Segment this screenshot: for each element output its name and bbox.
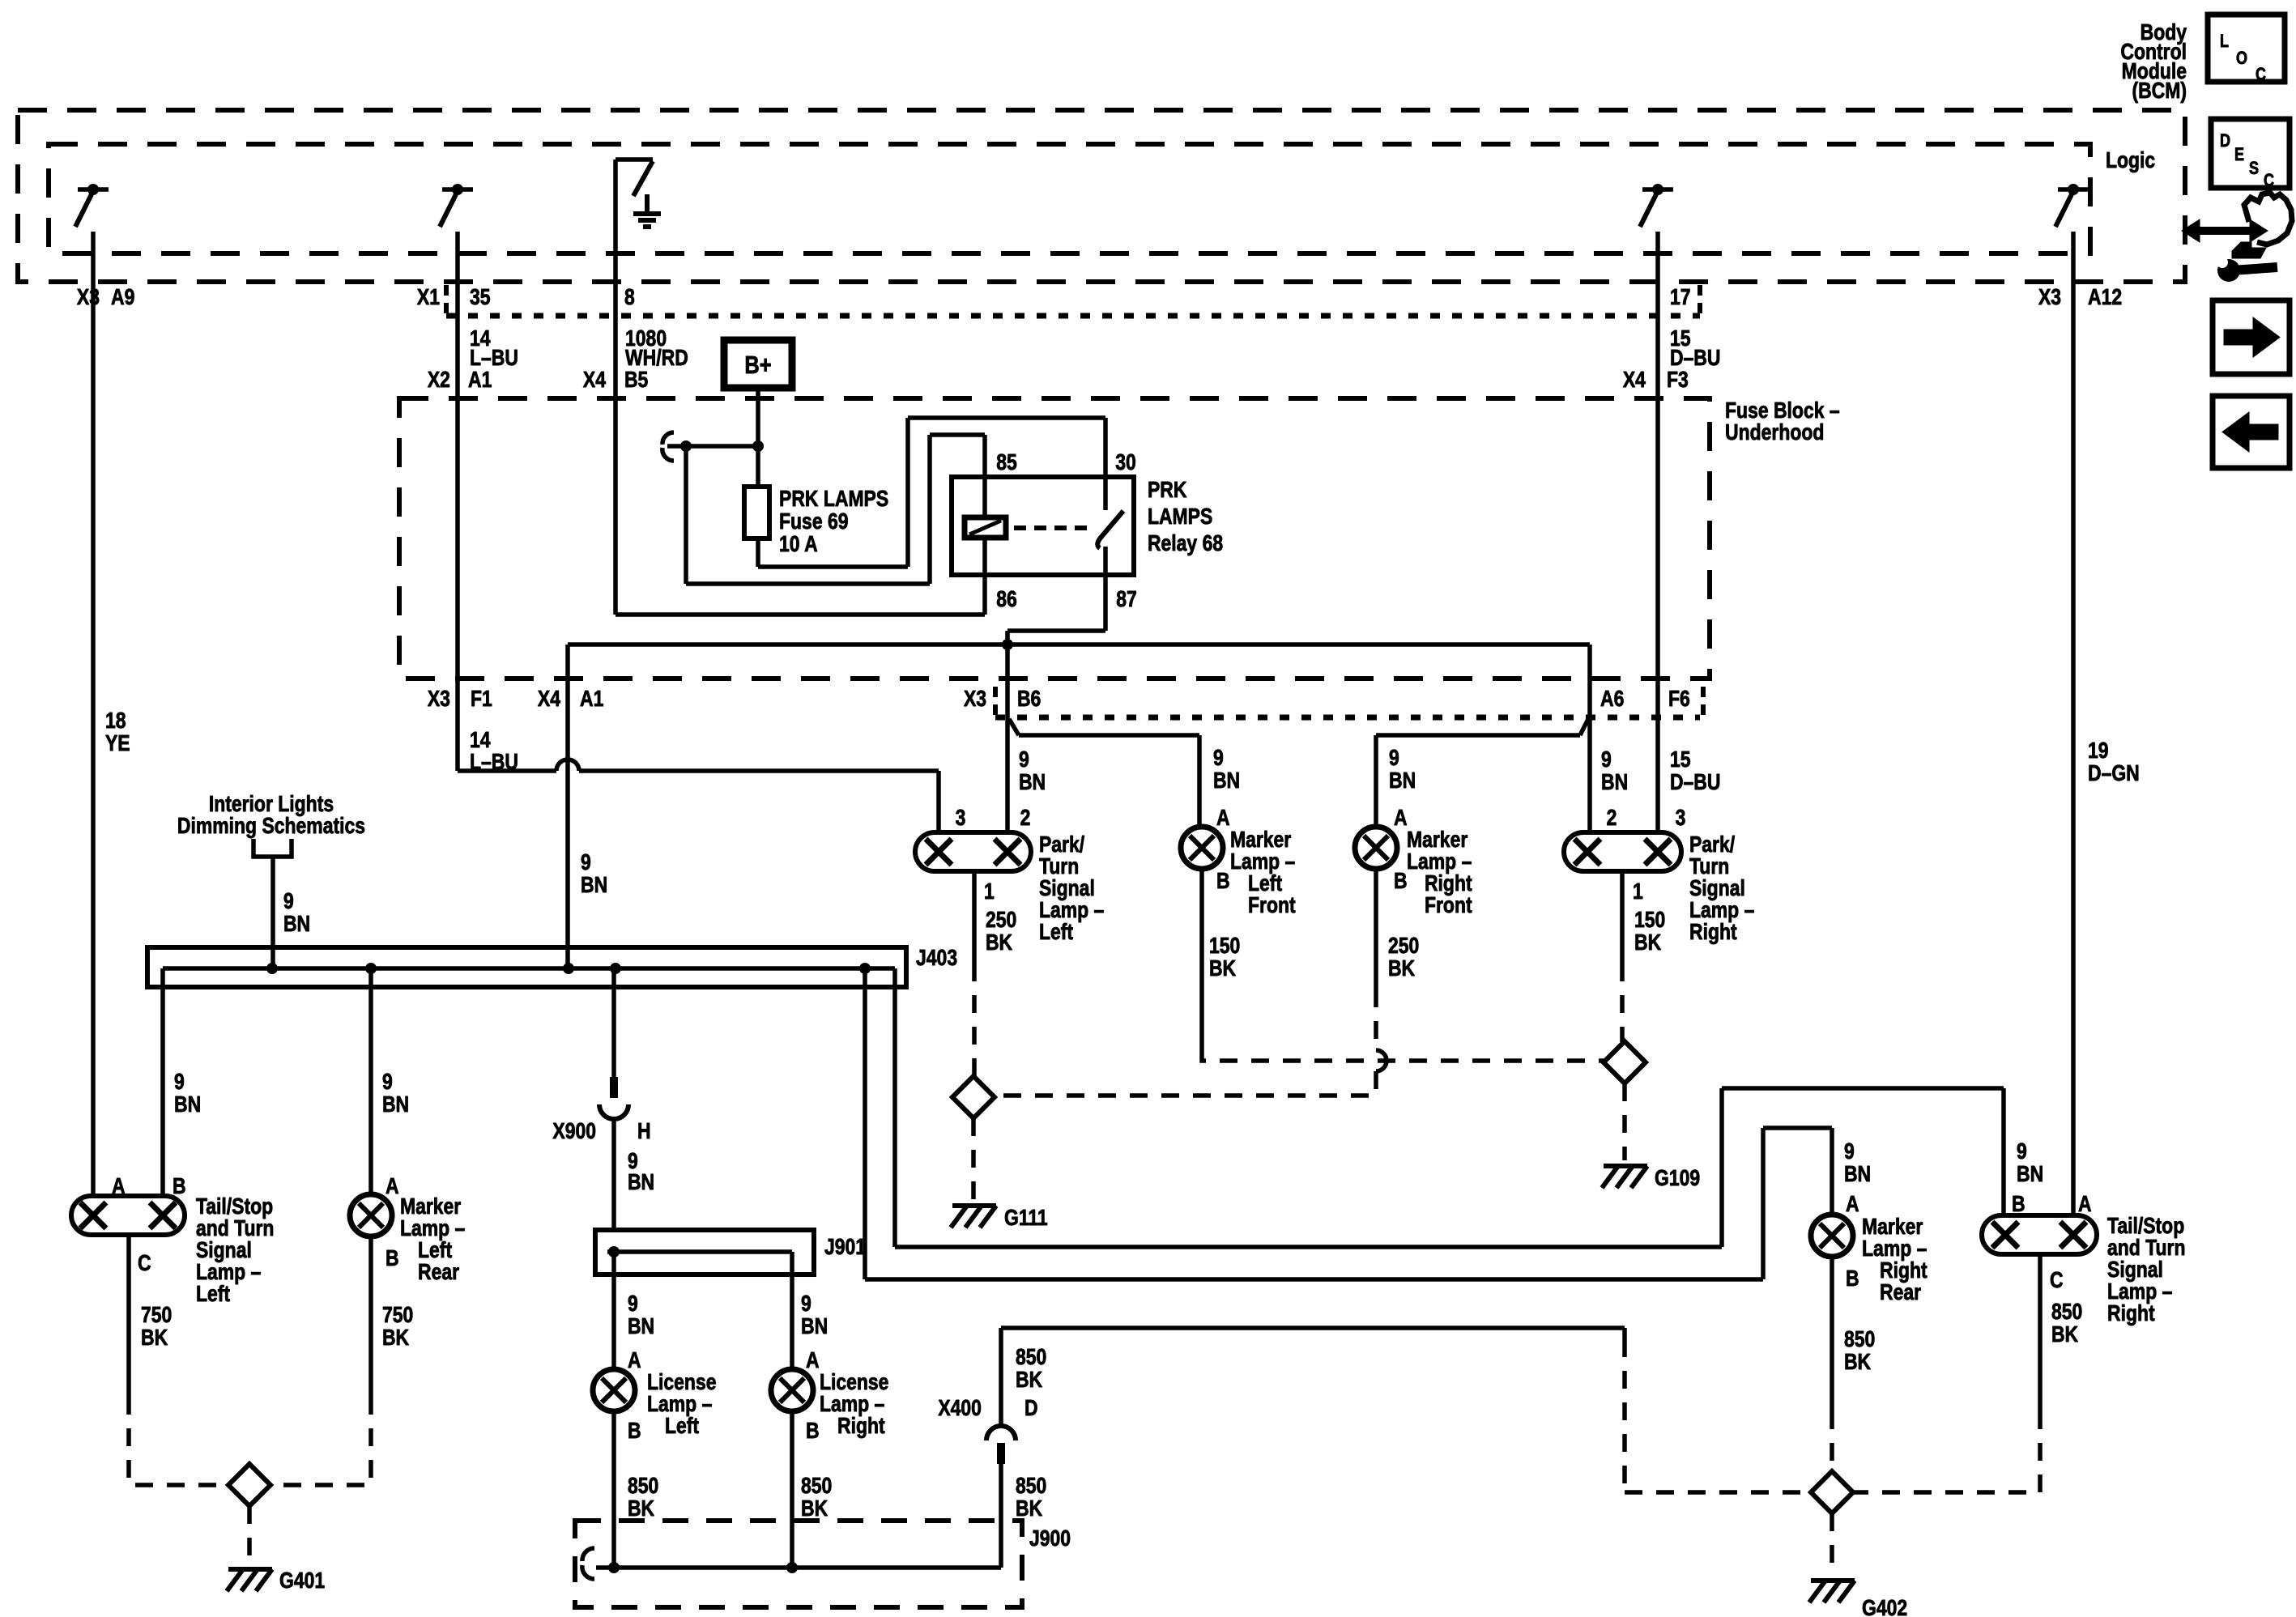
wire 9 BN X900 to J901 [611, 1119, 616, 1230]
svg-text:BK: BK [1209, 956, 1237, 981]
wire X3-B6 drop to park/turn left pin 2 [1005, 645, 1010, 832]
svg-text:9: 9 [801, 1291, 811, 1317]
branch to marker lamp right front [1580, 719, 1588, 735]
svg-text:Front: Front [1425, 893, 1472, 918]
svg-text:250: 250 [986, 908, 1016, 933]
svg-text:35: 35 [470, 285, 491, 310]
BCM output driver switch X3-A12 [2058, 187, 2089, 192]
svg-text:C: C [2264, 171, 2274, 190]
svg-text:BK: BK [141, 1326, 168, 1351]
wire 14 L-BU horizontal to park/turn left pin 3 with hop [458, 768, 556, 773]
svg-text:O: O [2236, 49, 2247, 68]
svg-text:BN: BN [2017, 1162, 2043, 1187]
svg-text:850: 850 [1844, 1327, 1875, 1352]
park/turn signal lamp right [1564, 832, 1681, 871]
svg-text:B: B [1394, 869, 1408, 894]
svg-text:X3: X3 [964, 687, 986, 712]
wire 150 BK marker left front [1199, 869, 1204, 1047]
svg-text:E: E [2234, 145, 2244, 164]
svg-text:PRK: PRK [1148, 478, 1187, 503]
fused feed to relay pin 30 [756, 538, 760, 567]
wire 15 D-BU from BCM pin 17 to park/turn right pin 3 [1655, 232, 1660, 832]
svg-text:17: 17 [1670, 285, 1691, 310]
svg-text:9: 9 [581, 850, 591, 875]
svg-text:A12: A12 [2088, 285, 2122, 310]
svg-text:B: B [1846, 1266, 1859, 1291]
svg-text:3: 3 [956, 806, 966, 831]
svg-text:850: 850 [1016, 1474, 1046, 1499]
svg-text:BN: BN [1844, 1162, 1871, 1187]
BCM ground output pin 8 symbol [616, 157, 653, 162]
wire from B+ to fuse 69 [756, 388, 760, 487]
wire 750 BK marker left rear [368, 1236, 373, 1397]
svg-text:F1: F1 [471, 687, 492, 712]
svg-text:BK: BK [1388, 956, 1416, 981]
BCM inner dashed box (Logic) [49, 144, 2090, 253]
svg-text:30: 30 [1115, 450, 1136, 475]
svg-text:H: H [637, 1119, 651, 1144]
svg-text:750: 750 [141, 1303, 172, 1328]
svg-text:3: 3 [1676, 806, 1686, 831]
marker lamp left front [1181, 827, 1223, 869]
wire 850 BK X400 up and right to G402 net [999, 1328, 1003, 1426]
wire 9 BN J403 to marker right rear [863, 968, 867, 1279]
BCM module outer dashed box [18, 110, 2185, 282]
svg-text:8: 8 [624, 285, 635, 310]
wire A6 drop to park/turn right pin 2 [1587, 645, 1592, 832]
J900 ground bus bar [596, 1565, 1001, 1570]
svg-text:X4: X4 [583, 368, 607, 393]
wire 250 BK marker right front [1374, 869, 1378, 989]
svg-text:B: B [173, 1174, 186, 1199]
svg-text:A9: A9 [111, 285, 134, 310]
svg-text:B: B [386, 1246, 399, 1271]
svg-text:Rear: Rear [1880, 1280, 1921, 1305]
wire 850 BK ground run to G402 [999, 1460, 1003, 1568]
svg-text:BK: BK [628, 1496, 655, 1521]
wire X4-A1 drop to junction J403 [565, 645, 570, 968]
fuse PRK LAMPS Fuse 69 10A [744, 487, 769, 538]
icon box left arrow [2213, 396, 2290, 468]
svg-text:X4: X4 [538, 687, 561, 712]
marker lamp right front [1355, 827, 1397, 869]
svg-text:PRK LAMPS: PRK LAMPS [779, 487, 888, 512]
svg-text:YE: YE [105, 731, 130, 756]
svg-text:850: 850 [628, 1474, 658, 1499]
svg-text:9: 9 [283, 889, 294, 914]
svg-text:9: 9 [174, 1070, 185, 1095]
wire 850 BK license right [790, 1411, 794, 1568]
svg-text:BK: BK [1634, 930, 1662, 955]
svg-text:BN: BN [283, 912, 310, 937]
svg-text:BK: BK [2051, 1322, 2079, 1347]
svg-text:Front: Front [1248, 893, 1296, 918]
svg-text:F6: F6 [1668, 687, 1690, 712]
wire 850 BK license left [611, 1411, 616, 1568]
svg-text:Left: Left [196, 1282, 230, 1307]
svg-text:250: 250 [1388, 934, 1419, 959]
svg-text:850: 850 [1016, 1345, 1046, 1370]
svg-text:9: 9 [1844, 1139, 1855, 1164]
svg-text:Right: Right [1689, 920, 1737, 945]
wire J901 to license lamp right [790, 1252, 794, 1369]
svg-text:87: 87 [1116, 587, 1137, 612]
BCM output driver switch X3-A9 [78, 187, 109, 192]
svg-text:2: 2 [1607, 806, 1617, 831]
dashed wire to ground G401 [247, 1506, 252, 1564]
park/turn signal lamp left [915, 832, 1031, 871]
svg-text:X3: X3 [2038, 285, 2061, 310]
wire 19 D-GN from BCM X3-A12 to tail/stop lamp right pin A [2071, 232, 2076, 1215]
wire 1080 WH/RD from BCM pin 8 to relay pin 86 [613, 160, 618, 615]
svg-text:A6: A6 [1600, 687, 1624, 712]
inline connector X400 pin D [997, 1443, 1005, 1464]
svg-text:9: 9 [1601, 747, 1612, 772]
svg-text:A1: A1 [580, 687, 603, 712]
splice to G111 [952, 1076, 995, 1118]
BCM output driver switch X1-35 [442, 187, 473, 192]
svg-text:D–GN: D–GN [2088, 761, 2140, 786]
junction block J901 [595, 1230, 814, 1274]
svg-text:J901: J901 [824, 1235, 866, 1260]
svg-text:BN: BN [628, 1314, 654, 1339]
tail/stop and turn signal lamp right [1982, 1215, 2097, 1254]
svg-text:A: A [2078, 1192, 2092, 1217]
svg-text:B+: B+ [744, 351, 771, 380]
svg-text:A: A [1216, 806, 1230, 831]
wire J901 through to license lamp left [611, 1252, 616, 1369]
wire 9 BN J403 to tail/stop left pin B [160, 968, 165, 1198]
svg-text:B: B [806, 1419, 820, 1444]
svg-text:Right: Right [2107, 1301, 2155, 1326]
svg-text:Left: Left [1039, 920, 1073, 945]
branch to marker lamp left front [1009, 719, 1019, 735]
junction block J403 [147, 947, 906, 987]
svg-text:X4: X4 [1623, 368, 1646, 393]
icon hand with double arrow [2196, 227, 2253, 235]
svg-text:A: A [806, 1348, 820, 1373]
svg-text:D: D [2220, 131, 2230, 151]
hop over 150 BK dashed wire [1376, 1050, 1387, 1071]
svg-text:D: D [1024, 1396, 1038, 1421]
svg-text:B: B [2012, 1192, 2026, 1217]
svg-text:A: A [1846, 1192, 1859, 1217]
svg-text:BN: BN [1213, 768, 1240, 794]
svg-text:BN: BN [1389, 768, 1416, 794]
svg-text:9: 9 [2017, 1139, 2027, 1164]
connector row X1 dotted line [446, 313, 1700, 319]
svg-text:9: 9 [628, 1291, 638, 1317]
svg-text:BN: BN [581, 873, 607, 898]
dashed wire to ground G111 [971, 1118, 976, 1200]
svg-text:1: 1 [1633, 879, 1643, 904]
svg-text:15: 15 [1670, 747, 1691, 772]
svg-text:Rear: Rear [418, 1260, 459, 1285]
ground G111 [952, 1203, 996, 1208]
svg-text:F3: F3 [1667, 368, 1689, 393]
svg-text:C: C [2256, 65, 2266, 84]
J900 terminal clip [582, 1548, 594, 1561]
svg-text:BK: BK [382, 1326, 410, 1351]
svg-text:J403: J403 [916, 946, 957, 971]
svg-text:BN: BN [382, 1092, 409, 1117]
wire 18 YE from BCM X3-A9 to tail/stop lamp left [91, 232, 96, 1198]
svg-text:850: 850 [801, 1474, 832, 1499]
relay coil to contact dashed link [1014, 526, 1095, 530]
svg-text:150: 150 [1209, 934, 1240, 959]
wire 9 BN J403 to X900 [611, 968, 616, 1088]
svg-text:G111: G111 [1004, 1206, 1048, 1231]
icon wrench [2217, 259, 2240, 282]
svg-text:BK: BK [1016, 1496, 1043, 1521]
svg-text:BN: BN [1019, 770, 1046, 795]
svg-text:G109: G109 [1655, 1166, 1700, 1191]
relay pin 87 output wire [1103, 547, 1108, 631]
svg-text:BN: BN [174, 1092, 201, 1117]
svg-text:LAMPS: LAMPS [1148, 504, 1212, 530]
svg-text:750: 750 [382, 1303, 413, 1328]
wire 9 BN interior lights to J403 [270, 857, 275, 968]
wire 250 BK park/turn left [972, 871, 977, 964]
svg-text:Underhood: Underhood [1725, 420, 1824, 445]
svg-text:B6: B6 [1017, 687, 1041, 712]
svg-text:C: C [2050, 1268, 2064, 1293]
icon box DESC [2211, 119, 2290, 188]
svg-text:1: 1 [984, 879, 995, 904]
splice to G109 [1604, 1041, 1646, 1083]
svg-text:Dimming Schematics: Dimming Schematics [177, 814, 365, 839]
splice to G402 [1811, 1471, 1853, 1513]
icon box LOC [2208, 15, 2285, 82]
splice to G401 [228, 1464, 270, 1506]
svg-text:A: A [628, 1348, 641, 1373]
icon box right arrow [2213, 300, 2290, 374]
svg-text:S: S [2249, 159, 2259, 178]
connector row 2 dotted line [995, 715, 1700, 721]
wire 14 L-BU from BCM X1-35 through fuse block to park/turn left pin 3 [455, 232, 460, 771]
wire 750 BK tail/stop left [126, 1235, 131, 1397]
svg-text:X1: X1 [417, 285, 440, 310]
svg-text:85: 85 [996, 450, 1017, 475]
svg-text:19: 19 [2088, 738, 2109, 764]
svg-text:X3: X3 [428, 687, 450, 712]
wire 850 BK tail/stop right [2038, 1254, 2043, 1411]
svg-text:A: A [1394, 806, 1408, 831]
svg-text:B5: B5 [624, 368, 648, 393]
svg-text:9: 9 [1019, 747, 1029, 772]
relay PRK LAMPS Relay 68 box [952, 477, 1134, 575]
wire 150 BK park/turn right [1620, 871, 1625, 964]
svg-text:BK: BK [801, 1496, 829, 1521]
svg-text:X2: X2 [428, 368, 450, 393]
svg-text:L: L [2220, 32, 2229, 51]
svg-text:BK: BK [986, 930, 1013, 955]
svg-text:J900: J900 [1029, 1526, 1071, 1551]
interior lights off-page bracket [253, 839, 292, 857]
svg-text:BK: BK [1016, 1368, 1043, 1393]
svg-text:Left: Left [665, 1414, 699, 1439]
svg-text:850: 850 [2051, 1300, 2082, 1325]
svg-text:D–BU: D–BU [1670, 770, 1720, 795]
svg-text:9: 9 [1213, 746, 1224, 771]
dashed wire to ground G109 [1622, 1083, 1627, 1160]
relay coil [965, 517, 1006, 538]
svg-text:Right: Right [837, 1414, 885, 1439]
svg-text:86: 86 [996, 587, 1017, 612]
tail/stop and turn signal lamp left [71, 1196, 185, 1235]
junction block J900 dashed box [575, 1521, 1022, 1607]
wire 9 BN J403 to marker left rear [368, 968, 373, 1194]
svg-text:9: 9 [382, 1070, 393, 1095]
unfused feed to relay coil pin 85 [684, 446, 688, 584]
ground G401 [228, 1567, 272, 1572]
svg-text:BN: BN [628, 1170, 654, 1195]
fuse block underhood dashed box [399, 398, 1710, 679]
svg-text:BN: BN [801, 1314, 828, 1339]
wire 850 BK marker right rear [1830, 1257, 1834, 1411]
svg-text:(BCM): (BCM) [2132, 79, 2187, 104]
svg-text:2: 2 [1020, 806, 1031, 831]
svg-text:18: 18 [105, 709, 126, 734]
dashed wire to ground G402 [1830, 1513, 1834, 1575]
BCM output driver switch 17 (X4-F3) [1642, 187, 1673, 192]
svg-text:C: C [138, 1251, 151, 1276]
ground G402 [1811, 1578, 1855, 1583]
svg-text:9: 9 [1389, 746, 1399, 771]
svg-text:Fuse 69: Fuse 69 [779, 509, 848, 534]
fuse block terminal clip [662, 432, 674, 445]
B+ power feed box [724, 340, 792, 388]
ground G109 [1604, 1164, 1647, 1168]
wire clip to B+ node [667, 444, 758, 449]
svg-text:150: 150 [1634, 908, 1665, 933]
svg-text:B: B [1216, 869, 1230, 894]
inline connector X900 pin H [610, 1077, 618, 1098]
svg-text:BK: BK [1844, 1350, 1872, 1375]
svg-text:X400: X400 [938, 1396, 982, 1421]
wire 9 BN main feed horizontal [568, 642, 1590, 647]
marker lamp left rear [350, 1194, 392, 1236]
svg-text:BN: BN [1601, 770, 1628, 795]
svg-text:A1: A1 [468, 368, 492, 393]
svg-text:A: A [386, 1174, 399, 1199]
svg-text:X3: X3 [77, 285, 100, 310]
wire 9 BN J403 to tail/stop right pin B [892, 968, 897, 1247]
svg-text:X900: X900 [552, 1119, 596, 1144]
svg-text:G402: G402 [1862, 1596, 1907, 1617]
svg-text:10 A: 10 A [779, 532, 818, 557]
svg-text:Relay 68: Relay 68 [1148, 531, 1223, 556]
svg-text:Logic: Logic [2106, 148, 2155, 173]
svg-text:B: B [628, 1419, 641, 1444]
svg-text:G401: G401 [279, 1568, 325, 1594]
relay switch contact blade [1097, 511, 1123, 548]
